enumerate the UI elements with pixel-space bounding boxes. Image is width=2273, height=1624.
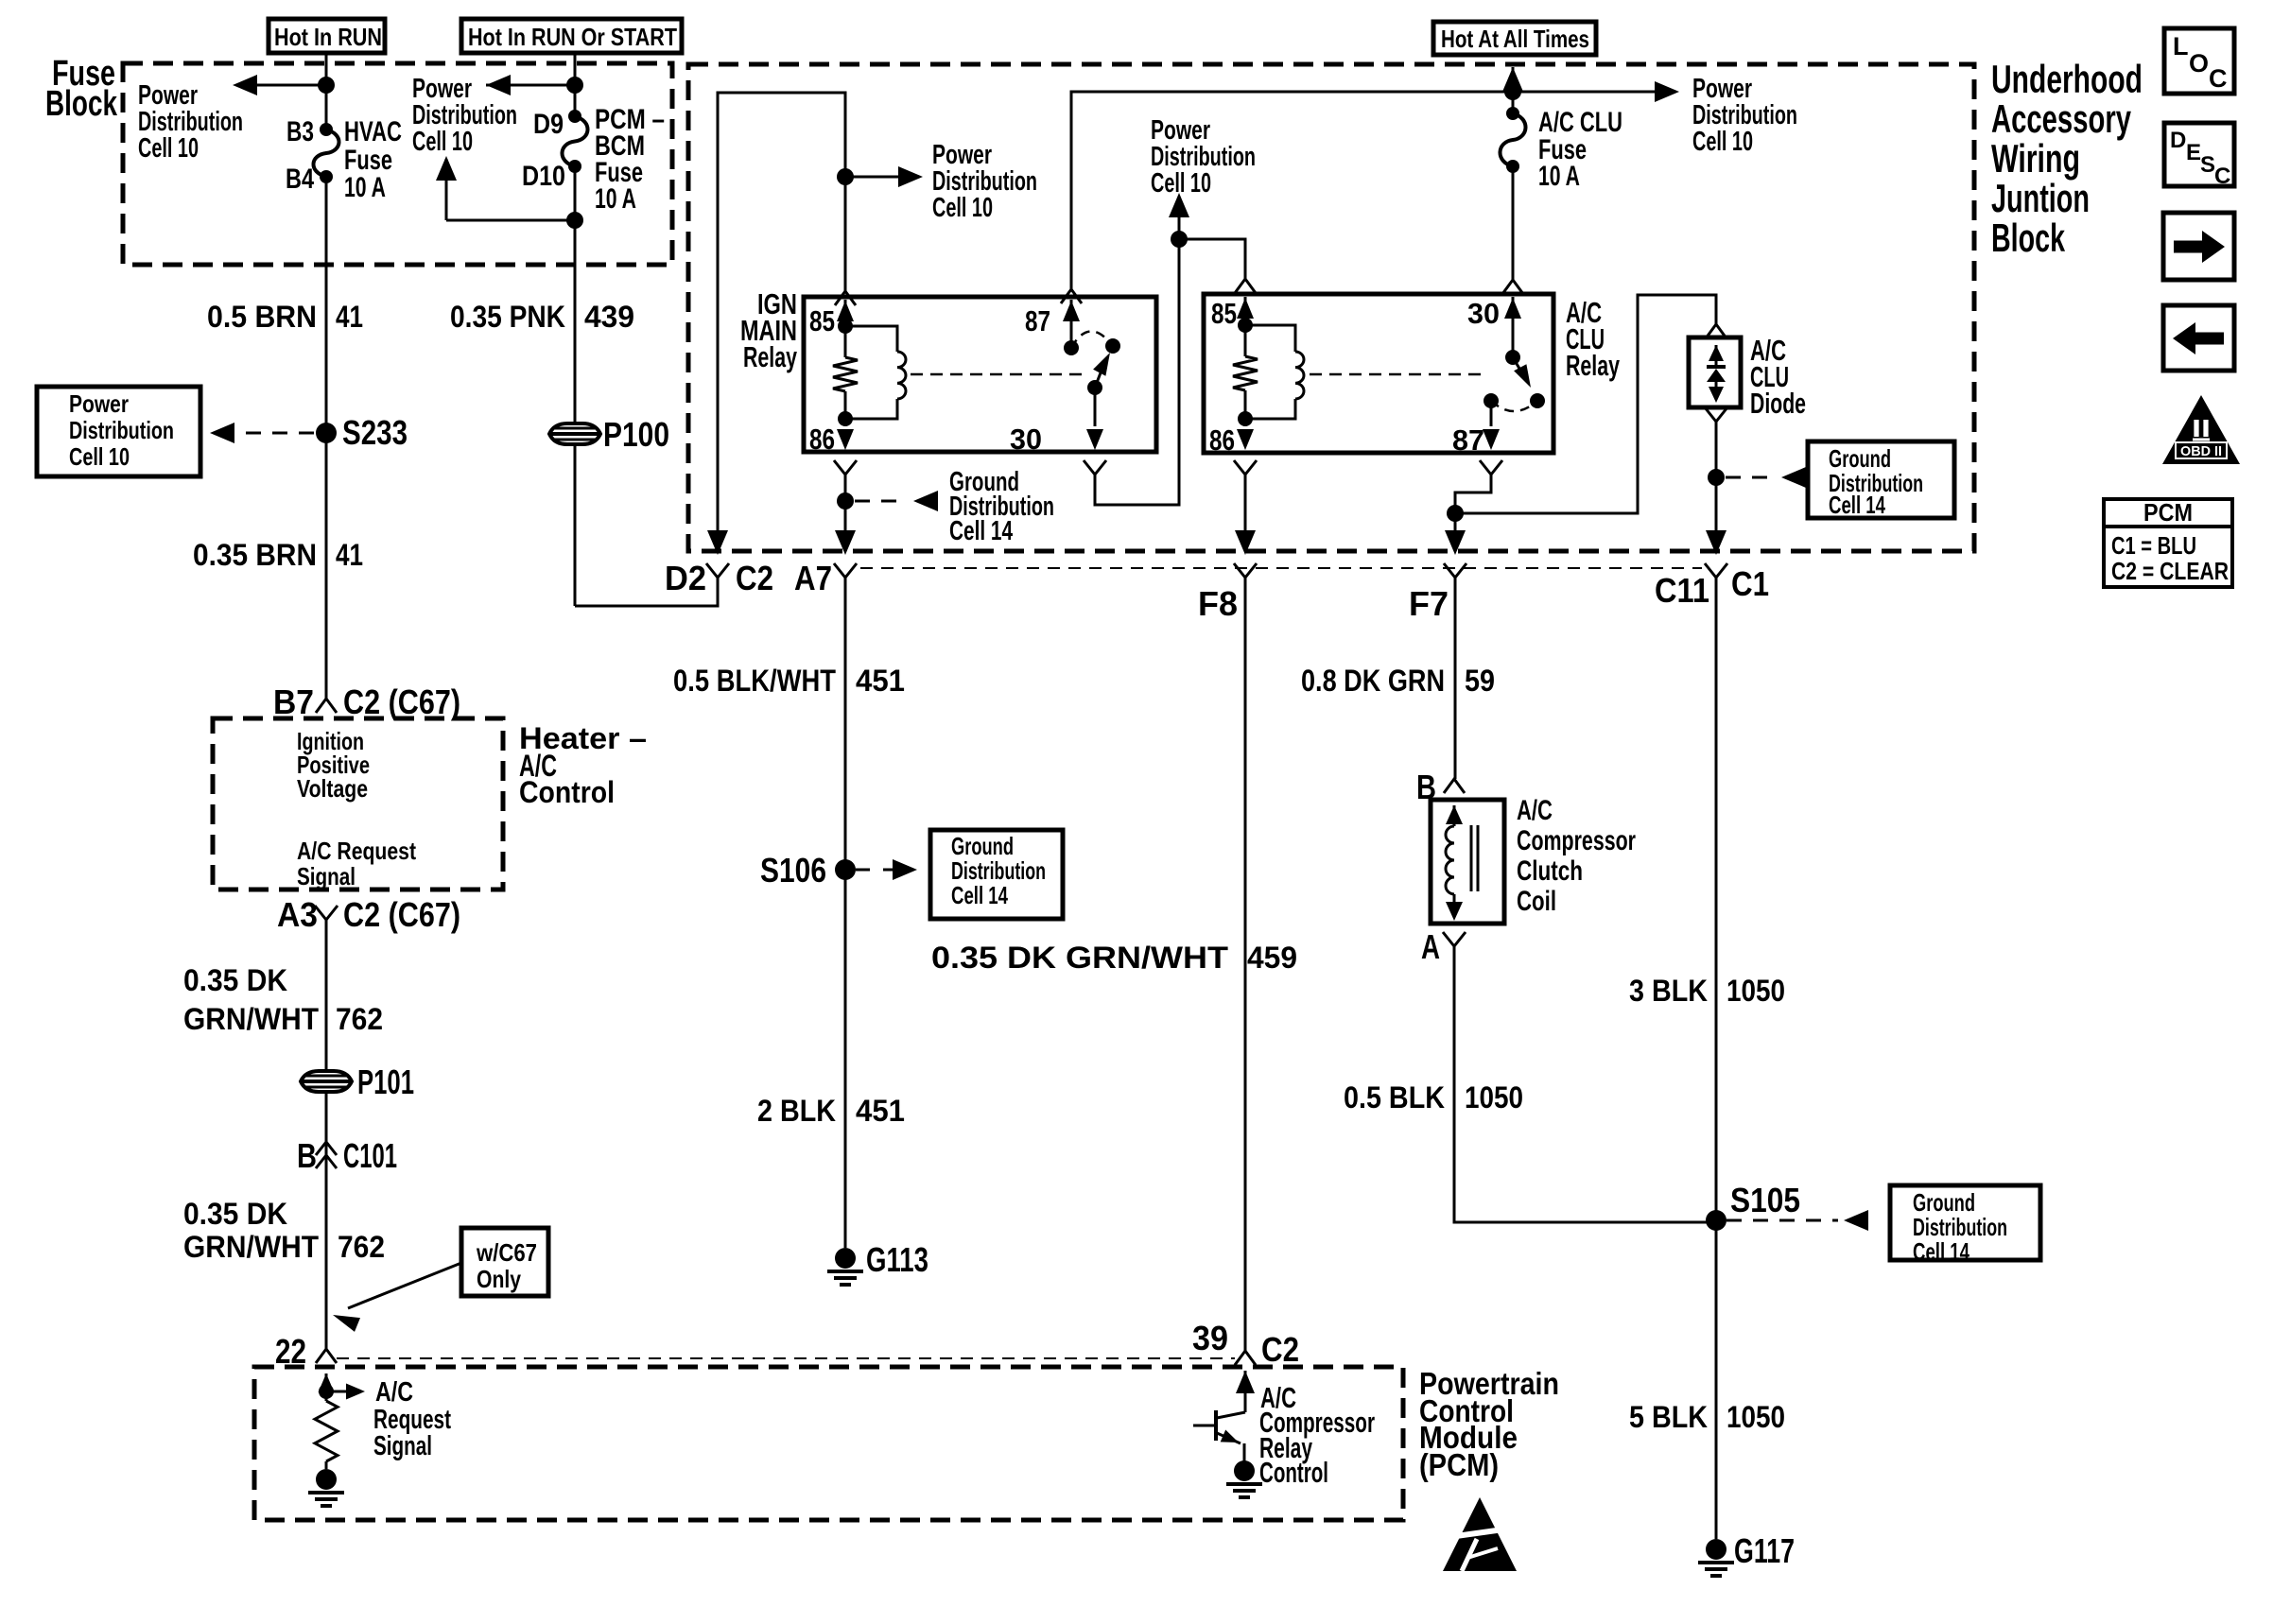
branch arrow up to Cell 10 text	[436, 156, 583, 229]
svg-text:C101: C101	[343, 1136, 397, 1175]
svg-text:C1: C1	[1731, 564, 1769, 603]
label box: Hot In RUN Or START	[461, 19, 682, 53]
ref box: Ground Distribution Cell 14 (diode)	[1808, 441, 1954, 519]
connector D2 / C2 exit	[665, 530, 773, 597]
svg-text:10 A: 10 A	[1538, 161, 1580, 192]
connector B (clutch coil)	[1416, 768, 1465, 806]
text: IGN MAIN Relay	[740, 287, 798, 373]
Fuse Block title	[45, 54, 118, 124]
pin label D10	[522, 161, 565, 192]
svg-text:Accessory: Accessory	[1991, 96, 2131, 141]
svg-text:0.35 DK: 0.35 DK	[183, 1197, 287, 1231]
svg-text:D9: D9	[533, 109, 564, 140]
text: Ignition Positive Voltage	[297, 727, 370, 803]
svg-text:Distribution: Distribution	[69, 416, 174, 444]
svg-text:30: 30	[1010, 423, 1042, 456]
svg-text:Cell 14: Cell 14	[1829, 491, 1885, 519]
diode A/C CLU box	[1689, 324, 1741, 407]
IGN relay switch contacts	[1064, 331, 1120, 355]
svg-text:D: D	[2170, 128, 2186, 153]
pin label D9	[533, 109, 564, 140]
text: A/C CLU Fuse 10 A	[1538, 107, 1622, 192]
svg-text:Control: Control	[519, 775, 615, 809]
callout arrow w/C67	[333, 1263, 461, 1332]
connector P100 (grommet)	[549, 415, 669, 454]
svg-text:G117: G117	[1734, 1531, 1795, 1570]
A/C relay pin 30	[1467, 297, 1521, 357]
svg-text:87: 87	[1025, 304, 1050, 337]
wire: Hot In RUN feed (vertical)	[325, 53, 328, 130]
icon box arrow left	[2163, 305, 2234, 371]
svg-text:B4: B4	[286, 164, 314, 195]
svg-text:Hot At All Times: Hot At All Times	[1441, 25, 1589, 53]
A/C relay coil resistor	[1233, 318, 1258, 419]
svg-text:459: 459	[1247, 941, 1297, 975]
text: HVAC Fuse 10 A	[344, 116, 402, 203]
text: Power Distribution Cell 10 (middle left)	[932, 140, 1037, 223]
text: Power Distribution Cell 10 (middle)	[1151, 115, 1256, 199]
svg-text:451: 451	[856, 1094, 905, 1128]
svg-text:87: 87	[1452, 423, 1484, 457]
transistor A/C compressor relay control driver	[1193, 1371, 1255, 1461]
svg-text:39: 39	[1192, 1319, 1228, 1357]
wire: C1 to G117	[1715, 578, 1718, 1539]
svg-text:41: 41	[336, 300, 363, 334]
diode symbol	[1707, 345, 1726, 403]
svg-text:A/C: A/C	[375, 1377, 413, 1408]
ground (transistor emitter)	[1226, 1460, 1262, 1497]
svg-text:1050: 1050	[1726, 1400, 1785, 1434]
svg-text:(PCM): (PCM)	[1419, 1447, 1499, 1482]
text: Ground Distribution Cell 14 (relay)	[949, 467, 1054, 546]
svg-text:0.35 DK GRN/WHT: 0.35 DK GRN/WHT	[931, 941, 1229, 975]
text: Power Distribution Cell 10 (fuse block, HVAC side)	[138, 80, 243, 164]
text: A/C CLU Diode	[1750, 334, 1806, 420]
svg-text:439: 439	[584, 300, 634, 334]
svg-text:C1 = BLU: C1 = BLU	[2111, 531, 2196, 560]
svg-text:Only: Only	[477, 1265, 521, 1293]
svg-text:1050: 1050	[1465, 1080, 1523, 1114]
svg-text:S: S	[2200, 152, 2215, 178]
svg-text:Voltage: Voltage	[297, 774, 368, 803]
svg-text:Cell 10: Cell 10	[1692, 127, 1753, 157]
svg-text:C2 = CLEAR: C2 = CLEAR	[2111, 557, 2229, 585]
svg-text:0.5 BLK/WHT: 0.5 BLK/WHT	[673, 664, 836, 698]
relay IGN MAIN box	[804, 297, 1156, 452]
svg-text:Block: Block	[1991, 216, 2065, 260]
connector C101 pin B	[297, 1136, 397, 1175]
IGN relay switch arm	[1087, 353, 1110, 395]
svg-text:Cell 14: Cell 14	[1913, 1237, 1969, 1266]
svg-text:0.35 DK: 0.35 DK	[183, 963, 287, 997]
svg-text:0.8 DK GRN: 0.8 DK GRN	[1301, 664, 1445, 698]
svg-text:P100: P100	[603, 415, 669, 454]
component box: Heater A/C Control (dashed)	[213, 718, 503, 890]
svg-text:A3: A3	[277, 895, 318, 934]
arrow to Power Distribution Cell 10 (middle left)	[837, 166, 923, 187]
ref arrow to Ground Distribution Cell 14 (S106)	[856, 859, 917, 880]
svg-text:A/C Request: A/C Request	[297, 837, 416, 865]
connector B7 / C2 (C67)	[273, 682, 460, 721]
junction + arrow up to Power Distribution Cell 10 (middle)	[1169, 193, 1245, 280]
svg-text:Signal: Signal	[297, 862, 356, 890]
IGN relay pin 30	[1010, 388, 1103, 456]
IGN relay pin 86	[809, 411, 854, 456]
ref box: Ground Distribution Cell 14 (S105)	[1890, 1185, 2040, 1266]
svg-text:D10: D10	[522, 161, 565, 192]
ground (PCM request signal)	[308, 1469, 344, 1506]
wire: Hot At All Times feed	[1502, 67, 1523, 113]
svg-text:A: A	[1421, 927, 1440, 966]
label box: Hot At All Times	[1433, 22, 1596, 55]
pin label B4	[286, 164, 314, 195]
svg-text:59: 59	[1465, 664, 1495, 698]
icon: ESD sensitive symbol	[1443, 1497, 1517, 1571]
splice S233	[316, 413, 408, 452]
svg-text:A/C: A/C	[1517, 795, 1553, 826]
svg-text:GRN/WHT: GRN/WHT	[183, 1230, 319, 1264]
wire: BRN to B7	[325, 565, 328, 699]
arrow to Power Distribution Cell 10 (fuse block right)	[486, 75, 583, 95]
wire label 2 BLK 451	[757, 1094, 905, 1128]
pin label B3	[286, 116, 314, 147]
wire: A3 to P101	[325, 920, 328, 1349]
dashed ref arrow to Ground Distribution Cell 14 (relay)	[855, 491, 938, 511]
svg-text:1050: 1050	[1726, 974, 1785, 1008]
A/C relay coil	[1245, 325, 1304, 419]
ref box: Ground Distribution Cell 14 (S106)	[930, 830, 1063, 919]
svg-text:C2 (C67): C2 (C67)	[343, 682, 460, 721]
Fuse Block enclosure (dashed)	[123, 63, 672, 265]
module box: Powertrain Control Module PCM (dashed)	[254, 1367, 1403, 1520]
A/C relay actuation dashed link	[1310, 373, 1481, 376]
svg-text:Hot In RUN Or START: Hot In RUN Or START	[468, 23, 677, 51]
wire label 0.5 BRN 41	[207, 300, 363, 334]
svg-text:86: 86	[809, 423, 835, 456]
wire label 0.8 DK GRN 59	[1301, 664, 1495, 698]
connector A7 exit	[794, 530, 857, 597]
svg-text:5 BLK: 5 BLK	[1629, 1400, 1708, 1434]
wire: A/C pin86 to F8 exit	[1234, 460, 1257, 551]
svg-text:Cell 14: Cell 14	[951, 881, 1008, 909]
wire label 0.5 BLK/WHT 451	[673, 664, 905, 698]
svg-text:3 BLK: 3 BLK	[1629, 974, 1708, 1008]
splice S106	[760, 851, 856, 890]
svg-text:Cell 10: Cell 10	[69, 442, 130, 471]
svg-text:w/C67: w/C67	[476, 1238, 537, 1267]
svg-text:0.35 BRN: 0.35 BRN	[193, 538, 317, 572]
text: A/C Request Signal (PCM)	[373, 1377, 451, 1461]
svg-text:Compressor: Compressor	[1517, 825, 1636, 856]
svg-text:C2 (C67): C2 (C67)	[343, 895, 460, 934]
svg-text:Clutch: Clutch	[1517, 855, 1583, 887]
svg-text:Juntion: Juntion	[1991, 176, 2090, 220]
wire: diode to C1 exit	[1705, 407, 1727, 551]
svg-text:Power: Power	[69, 389, 129, 418]
svg-text:C11: C11	[1655, 571, 1709, 610]
connector A3 / C2 (C67)	[277, 895, 460, 934]
Underhood block title	[1991, 57, 2143, 260]
ground G113	[827, 1240, 928, 1285]
svg-text:Cell 10: Cell 10	[1151, 168, 1211, 199]
wire: PNK to D2 (corner)	[575, 578, 718, 606]
svg-text:B: B	[297, 1136, 317, 1175]
callout box w/C67 Only	[461, 1228, 548, 1296]
svg-text:Underhood: Underhood	[1991, 57, 2143, 101]
svg-text:S105: S105	[1730, 1181, 1800, 1219]
svg-text:Wiring: Wiring	[1991, 136, 2080, 181]
svg-text:F8: F8	[1198, 584, 1238, 623]
ref box: Power Distribution Cell 10	[37, 387, 200, 476]
svg-text:Coil: Coil	[1517, 886, 1556, 917]
svg-text:D2: D2	[665, 559, 706, 597]
Underhood Accessory Wiring Junction Block enclosure (dashed)	[688, 64, 1974, 551]
svg-text:B3: B3	[286, 116, 314, 147]
fuse: PCM-BCM Fuse 10 A	[562, 110, 587, 173]
relay A/C CLU box	[1204, 294, 1553, 453]
text: A/C Request Signal (heater box)	[297, 837, 416, 890]
connector F7 exit	[1409, 530, 1466, 623]
svg-text:PCM: PCM	[2143, 498, 2193, 527]
arrow to Power Distribution Cell 10 (fuse block left)	[233, 75, 335, 95]
svg-text:OBD II: OBD II	[2180, 443, 2222, 459]
svg-text:C: C	[2209, 64, 2228, 93]
IGN relay pin 87	[1025, 300, 1080, 348]
wire: IGN pin86 to ground ref and A7	[834, 460, 857, 551]
wire label 0.35 PNK 439	[450, 300, 634, 334]
icon OBD II triangle	[2162, 395, 2240, 464]
wire: F8 down to PCM	[1244, 578, 1247, 1351]
wire: IGN pin30 to A/C relay pin85 riser	[1084, 239, 1179, 505]
label box: Hot In RUN	[269, 19, 385, 53]
svg-text:HVAC: HVAC	[344, 116, 402, 147]
svg-text:0.5 BRN: 0.5 BRN	[207, 300, 317, 334]
svg-text:41: 41	[336, 538, 363, 572]
dashed ref arrow to Ground Distribution Cell 14 (S105)	[1726, 1210, 1868, 1231]
A/C relay switch arm	[1505, 350, 1545, 408]
wire label 0.5 BLK 1050	[1344, 1080, 1523, 1114]
svg-text:G113: G113	[866, 1240, 928, 1279]
PCM A/C request resistor	[315, 1391, 338, 1469]
svg-text:F7: F7	[1409, 584, 1449, 623]
text: Powertrain Control Module (PCM)	[1419, 1366, 1559, 1482]
wire: F7 to clutch coil B	[1454, 578, 1457, 779]
wire: A/C CLU fuse to relay pin30	[1502, 166, 1523, 294]
svg-text:Diode: Diode	[1750, 387, 1806, 420]
icon box arrow right	[2163, 213, 2234, 280]
A/C relay pin 86	[1209, 411, 1254, 457]
power rail from IGN pin87 to Power Distribution arrow	[1061, 81, 1679, 303]
svg-text:Relay: Relay	[1566, 349, 1621, 382]
wire label 0.35 BRN 41	[193, 538, 363, 572]
svg-text:P101: P101	[357, 1063, 414, 1101]
svg-text:Cell 10: Cell 10	[932, 193, 993, 223]
wire: fuse B4 down through fuse block	[325, 177, 328, 699]
svg-text:2 BLK: 2 BLK	[757, 1094, 836, 1128]
connector P101 (grommet)	[301, 1063, 414, 1101]
svg-text:B7: B7	[273, 682, 314, 721]
text: Heater A/C Control title	[519, 721, 647, 809]
wire: A7 to G113	[844, 578, 847, 1248]
wire label 0.35 DK GRN/WHT 762 (upper)	[183, 963, 383, 1036]
wire label 0.35 DK GRN/WHT 762 (lower)	[183, 1197, 385, 1264]
IGN relay pin 85	[809, 291, 856, 337]
text: A/C Compressor Relay Control	[1259, 1381, 1375, 1489]
svg-text:Signal: Signal	[373, 1431, 432, 1461]
connector C11 / C1 exit	[1655, 530, 1769, 610]
text: Power Distribution Cell 10 (top right)	[1692, 74, 1797, 157]
wire: Hot In RUN Or START feed (vertical)	[574, 53, 577, 116]
A/C relay pin 85	[1211, 279, 1256, 330]
svg-text:A7: A7	[794, 559, 832, 597]
svg-text:E: E	[2186, 140, 2201, 165]
fuse: HVAC Fuse 10 A	[313, 123, 338, 183]
svg-text:762: 762	[338, 1230, 385, 1264]
wire label 0.35 DK GRN/WHT 459	[931, 941, 1297, 975]
svg-text:0.5 BLK: 0.5 BLK	[1344, 1080, 1445, 1114]
A/C relay switch contact	[1484, 393, 1537, 411]
svg-text:30: 30	[1467, 297, 1500, 330]
ground G117	[1698, 1531, 1795, 1576]
connector 39 / C2 into PCM	[1192, 1319, 1299, 1369]
splice S105	[1706, 1181, 1800, 1231]
svg-text:Control: Control	[1259, 1456, 1328, 1489]
text: PCM-BCM Fuse 10 A	[595, 104, 665, 215]
svg-text:10 A: 10 A	[344, 172, 386, 203]
dashed ref arrow to Ground Distribution Cell 14 (diode)	[1726, 467, 1806, 488]
svg-text:O: O	[2189, 49, 2209, 78]
connector 22 into PCM	[275, 1332, 337, 1371]
component box: A/C Compressor Clutch Coil	[1431, 800, 1504, 924]
wire: fuse D10 down to P100	[574, 166, 577, 606]
svg-text:C2: C2	[1261, 1330, 1299, 1369]
svg-text:85: 85	[1211, 297, 1237, 330]
svg-text:0.35 PNK: 0.35 PNK	[450, 300, 565, 334]
connector F8 exit	[1198, 530, 1257, 623]
svg-text:Block: Block	[45, 84, 118, 124]
IGN relay actuation dashed link	[911, 373, 1087, 376]
svg-text:C2: C2	[736, 559, 773, 597]
svg-text:Relay: Relay	[743, 340, 798, 373]
IGN relay coil	[845, 326, 906, 419]
svg-text:S233: S233	[342, 413, 408, 452]
wire label 3 BLK 1050	[1629, 974, 1785, 1008]
PCM pin 22 internal arrow	[319, 1373, 366, 1400]
dashed ref arrow from S233 to Power Distribution Cell 10	[210, 423, 314, 443]
svg-text:762: 762	[336, 1002, 383, 1036]
clutch coil symbol	[1446, 805, 1478, 921]
svg-text:GRN/WHT: GRN/WHT	[183, 1002, 319, 1036]
svg-text:S106: S106	[760, 851, 826, 890]
svg-text:10 A: 10 A	[595, 183, 636, 215]
svg-text:Cell 14: Cell 14	[949, 516, 1013, 546]
text: A/C Compressor Clutch Coil	[1517, 795, 1636, 917]
svg-text:C: C	[2214, 164, 2230, 189]
wire label 5 BLK 1050	[1629, 1400, 1785, 1434]
icon box DESC	[2164, 123, 2234, 189]
connector A (clutch coil)	[1421, 927, 1466, 966]
A/C relay pin 87	[1452, 401, 1500, 457]
thin dashed connector line C2/C1	[860, 567, 1702, 569]
svg-text:86: 86	[1209, 423, 1235, 457]
thin dashed connector line C2 (PCM)	[337, 1357, 1235, 1359]
svg-text:85: 85	[809, 304, 835, 337]
fuse: A/C CLU Fuse 10 A	[1500, 107, 1525, 173]
text: Power Distribution Cell 10 (fuse block, PCM side)	[412, 74, 517, 157]
legend box PCM connectors	[2104, 498, 2232, 587]
icon box LOC	[2164, 28, 2234, 94]
svg-text:L: L	[2173, 32, 2189, 60]
svg-text:Cell 10: Cell 10	[138, 133, 199, 164]
wire: D2 riser to IGN relay pin85	[718, 93, 845, 551]
wire: clutch coil A to S105	[1454, 946, 1716, 1222]
svg-text:Cell 10: Cell 10	[412, 127, 473, 157]
svg-text:Hot In RUN: Hot In RUN	[274, 23, 382, 51]
wire: A/C pin87 to F7 and diode loop	[1447, 295, 1716, 551]
text: A/C CLU Relay	[1566, 296, 1621, 382]
IGN relay coil resistor	[833, 319, 858, 419]
svg-text:451: 451	[856, 664, 905, 698]
